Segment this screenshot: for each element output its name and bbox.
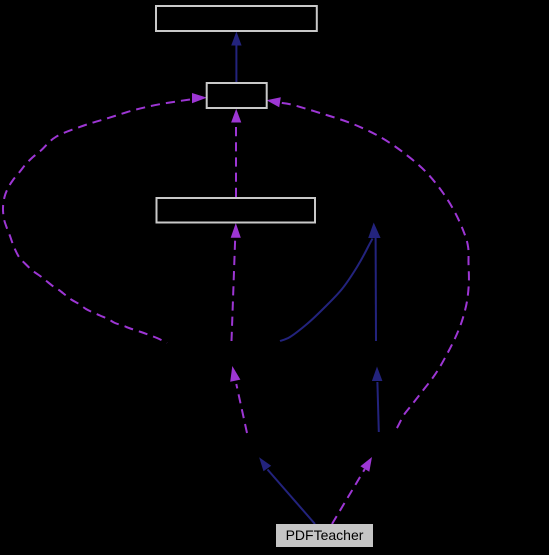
svg-text:PDFTeacher: PDFTeacher bbox=[286, 527, 364, 543]
